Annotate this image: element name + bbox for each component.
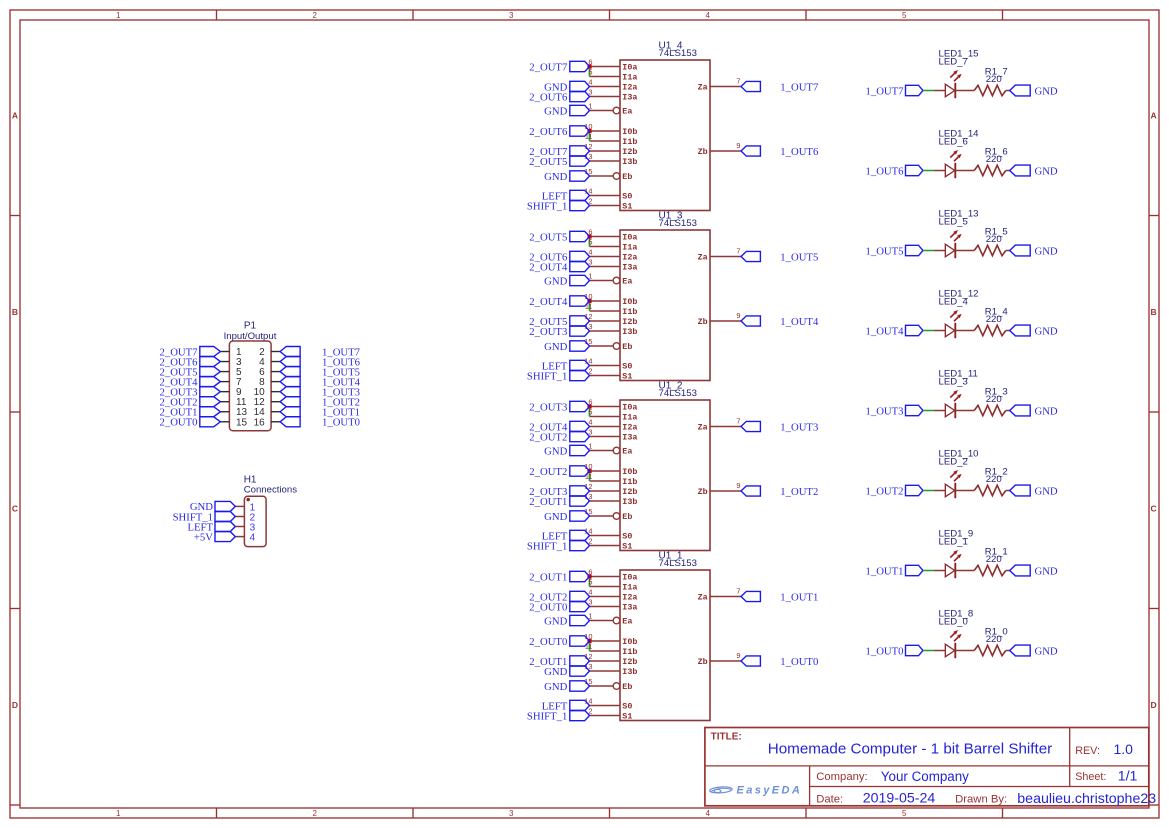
svg-text:2: 2 bbox=[313, 11, 318, 20]
svg-text:9: 9 bbox=[736, 311, 740, 320]
svg-text:Za: Za bbox=[698, 423, 708, 433]
junction at I0b bbox=[587, 639, 591, 643]
svg-text:Date:: Date: bbox=[816, 793, 843, 805]
svg-text:I2b: I2b bbox=[622, 657, 637, 667]
svg-text:2019-05-24: 2019-05-24 bbox=[863, 791, 936, 807]
wire bbox=[1006, 570, 1010, 572]
svg-text:S0: S0 bbox=[622, 362, 632, 372]
U1_2 pin numbers bbox=[584, 398, 740, 546]
LED D4 (LED1_12 / LED_4) bbox=[945, 310, 961, 338]
svg-text:15: 15 bbox=[236, 417, 248, 428]
port GND (pin 1) bbox=[544, 105, 589, 117]
resistor labels R1_5 220 bbox=[985, 226, 1008, 245]
svg-text:Eb: Eb bbox=[622, 512, 632, 522]
svg-text:1.0: 1.0 bbox=[1114, 741, 1134, 757]
H1 pin1 marker dot bbox=[247, 498, 250, 501]
ground port GND bbox=[1010, 485, 1058, 497]
U1_1 pin numbers bbox=[584, 568, 740, 716]
port 2_OUT1 (pin 12) bbox=[529, 656, 589, 668]
svg-text:2_OUT6: 2_OUT6 bbox=[529, 91, 568, 103]
ground port GND bbox=[1010, 245, 1058, 257]
resistor labels R1_0 220 bbox=[985, 626, 1008, 645]
U1_2 input pin wires bbox=[590, 407, 742, 546]
port 2_OUT2 (pin 4) bbox=[529, 591, 589, 603]
wire bbox=[955, 330, 974, 332]
U1_1 Ea enable bubble bbox=[613, 617, 620, 624]
svg-text:Sheet:: Sheet: bbox=[1075, 771, 1106, 783]
svg-text:Za: Za bbox=[698, 253, 708, 263]
svg-text:GND: GND bbox=[1035, 245, 1058, 257]
svg-text:2_OUT2: 2_OUT2 bbox=[529, 466, 567, 478]
port 1_OUT6 (P1 pin 4) bbox=[280, 356, 361, 368]
port 2_OUT3 (pin 6) bbox=[529, 401, 589, 413]
green wire bbox=[923, 330, 934, 332]
svg-text:Drawn By:: Drawn By: bbox=[955, 793, 1007, 805]
junction at I0a bbox=[587, 404, 591, 408]
svg-text:1_OUT4: 1_OUT4 bbox=[866, 325, 905, 337]
svg-text:I0b: I0b bbox=[622, 467, 637, 477]
svg-text:9: 9 bbox=[736, 481, 740, 490]
svg-text:I3a: I3a bbox=[622, 93, 637, 103]
svg-text:I1b: I1b bbox=[622, 307, 637, 317]
svg-text:LED_2: LED_2 bbox=[939, 457, 968, 468]
wire bbox=[1006, 170, 1010, 172]
wire bbox=[1006, 250, 1010, 252]
port 2_OUT4 (pin 4) bbox=[529, 421, 589, 433]
svg-text:16: 16 bbox=[254, 417, 266, 428]
port 1_OUT4 (P1 pin 8) bbox=[280, 376, 361, 388]
resistor labels R1_7 220 bbox=[985, 66, 1008, 85]
port GND (pin 4) bbox=[544, 81, 589, 93]
port 2_OUT3 (pin 12) bbox=[529, 486, 589, 498]
port 2_OUT0 (P1 pin 15) bbox=[160, 417, 221, 429]
port 2_OUT6 (P1 pin 3) bbox=[160, 356, 221, 368]
P1 reference labels bbox=[224, 320, 277, 342]
svg-text:C: C bbox=[1151, 504, 1157, 514]
svg-text:GND: GND bbox=[1035, 565, 1058, 577]
svg-text:LED_3: LED_3 bbox=[939, 377, 968, 388]
port GND (pin 15) bbox=[544, 341, 589, 353]
svg-text:220: 220 bbox=[986, 74, 1002, 85]
output port 1_OUT0 (pin 9) bbox=[741, 656, 818, 668]
svg-text:I2b: I2b bbox=[622, 147, 637, 157]
svg-text:1_OUT3: 1_OUT3 bbox=[866, 405, 904, 417]
svg-text:GND: GND bbox=[544, 666, 567, 678]
svg-text:LED_5: LED_5 bbox=[939, 217, 968, 228]
svg-text:Zb: Zb bbox=[698, 147, 708, 157]
svg-text:Your Company: Your Company bbox=[881, 769, 969, 784]
svg-text:S0: S0 bbox=[622, 702, 632, 712]
port 2_OUT7 (pin 6) bbox=[529, 61, 589, 73]
svg-text:1/1: 1/1 bbox=[1118, 769, 1138, 785]
wire bbox=[955, 250, 974, 252]
svg-text:GND: GND bbox=[1035, 325, 1058, 337]
LED labels LED1_10 LED_2 bbox=[939, 449, 979, 468]
wire bbox=[955, 90, 974, 92]
LED D7 (LED1_15 / LED_7) bbox=[945, 70, 961, 98]
svg-text:1_OUT1: 1_OUT1 bbox=[780, 591, 818, 603]
LED labels LED1_8 LED_0 bbox=[939, 609, 974, 628]
port 2_OUT7 (P1 pin 1) bbox=[160, 346, 221, 358]
svg-text:Connections: Connections bbox=[244, 485, 298, 496]
svg-text:I0a: I0a bbox=[622, 573, 637, 583]
svg-text:GND: GND bbox=[544, 171, 567, 183]
LED D2 (LED1_10 / LED_2) bbox=[945, 470, 961, 498]
port 2_OUT2 (P1 pin 11) bbox=[160, 397, 221, 409]
svg-text:5: 5 bbox=[588, 68, 592, 77]
svg-text:SHIFT_1: SHIFT_1 bbox=[527, 540, 567, 552]
wire bbox=[934, 410, 946, 412]
svg-text:S0: S0 bbox=[622, 532, 632, 542]
port 1_OUT6 bbox=[866, 165, 924, 177]
svg-text:I3a: I3a bbox=[622, 263, 637, 273]
U1_4 Eb enable bubble bbox=[613, 173, 620, 180]
port SHIFT_1 (pin 2) bbox=[527, 200, 590, 212]
port GND (pin 15) bbox=[544, 511, 589, 523]
svg-text:Ea: Ea bbox=[622, 447, 632, 457]
svg-text:2: 2 bbox=[313, 809, 318, 818]
wire bbox=[955, 170, 974, 172]
IC U1_3 reference label bbox=[659, 210, 697, 229]
svg-text:1_OUT2: 1_OUT2 bbox=[866, 485, 904, 497]
resistor labels R1_6 220 bbox=[985, 146, 1008, 165]
svg-text:GND: GND bbox=[1035, 405, 1058, 417]
svg-text:7: 7 bbox=[736, 587, 740, 596]
svg-text:Ea: Ea bbox=[622, 617, 632, 627]
EasyEDA logo bbox=[709, 785, 802, 797]
svg-text:11: 11 bbox=[585, 132, 593, 141]
port 2_OUT6 (pin 4) bbox=[529, 251, 589, 263]
port 2_OUT5 (pin 13) bbox=[529, 156, 589, 168]
svg-text:Za: Za bbox=[698, 83, 708, 93]
U1_1 Eb enable bubble bbox=[613, 683, 620, 690]
resistor R1_1 220 bbox=[974, 565, 1006, 575]
resistor labels R1_4 220 bbox=[985, 306, 1009, 325]
svg-text:2_OUT0: 2_OUT0 bbox=[160, 417, 198, 429]
IC U1_2 reference label bbox=[659, 380, 697, 399]
port 2_OUT7 (pin 12) bbox=[529, 146, 589, 158]
svg-text:I2a: I2a bbox=[622, 253, 637, 263]
svg-text:Zb: Zb bbox=[698, 657, 708, 667]
svg-text:9: 9 bbox=[736, 141, 740, 150]
resistor R1_4 220 bbox=[974, 325, 1006, 335]
svg-text:LED_1: LED_1 bbox=[939, 537, 968, 548]
svg-text:7: 7 bbox=[736, 417, 740, 426]
green wire bbox=[923, 570, 934, 572]
port 2_OUT1 (pin 6) bbox=[529, 571, 589, 583]
svg-text:Input/Output: Input/Output bbox=[224, 331, 277, 342]
svg-text:1_OUT4: 1_OUT4 bbox=[780, 316, 819, 328]
IC U1_4 74LS153 body bbox=[620, 60, 710, 212]
svg-text:5: 5 bbox=[588, 408, 592, 417]
port GND (pin 15) bbox=[544, 681, 589, 693]
port LEFT (pin 14) bbox=[542, 360, 590, 372]
port 2_OUT6 (pin 3) bbox=[529, 91, 589, 103]
port 1_OUT1 bbox=[866, 565, 924, 577]
ground port GND bbox=[1010, 165, 1058, 177]
svg-text:9: 9 bbox=[736, 651, 740, 660]
wire bbox=[934, 570, 946, 572]
U1_2 Ea enable bubble bbox=[613, 447, 620, 454]
IC U1_1 reference label bbox=[659, 550, 697, 569]
svg-text:I3b: I3b bbox=[622, 497, 637, 507]
svg-text:I0a: I0a bbox=[622, 233, 637, 243]
green wire I0b-I1b strap bbox=[589, 473, 591, 482]
svg-text:1_OUT0: 1_OUT0 bbox=[780, 656, 818, 668]
svg-text:GND: GND bbox=[544, 445, 567, 457]
port 1_OUT0 bbox=[866, 645, 924, 657]
LED labels LED1_9 LED_1 bbox=[939, 529, 974, 548]
IC U1_4 reference label bbox=[659, 40, 697, 59]
svg-text:Eb: Eb bbox=[622, 172, 632, 182]
junction at I0b bbox=[587, 299, 591, 303]
svg-text:I0a: I0a bbox=[622, 63, 637, 73]
port 1_OUT4 bbox=[866, 325, 924, 337]
svg-text:2_OUT5: 2_OUT5 bbox=[529, 231, 567, 243]
svg-text:I1b: I1b bbox=[622, 647, 637, 657]
svg-text:2_OUT0: 2_OUT0 bbox=[529, 601, 567, 613]
junction at I0b bbox=[587, 469, 591, 473]
svg-text:1_OUT1: 1_OUT1 bbox=[866, 565, 904, 577]
LED labels LED1_14 LED_6 bbox=[939, 129, 980, 148]
svg-text:Zb: Zb bbox=[698, 487, 708, 497]
svg-text:220: 220 bbox=[986, 154, 1002, 165]
port 2_OUT1 (pin 13) bbox=[529, 496, 589, 508]
title block texts bbox=[711, 732, 1157, 808]
port 1_OUT5 (P1 pin 6) bbox=[280, 366, 360, 378]
port LEFT (pin 14) bbox=[542, 700, 590, 712]
port 2_OUT1 (P1 pin 13) bbox=[160, 407, 221, 419]
green wire bbox=[923, 170, 934, 172]
svg-text:1: 1 bbox=[116, 809, 121, 818]
port 2_OUT4 (pin 10) bbox=[529, 296, 589, 308]
port GND (pin 15) bbox=[544, 171, 589, 183]
wire bbox=[955, 570, 974, 572]
port 2_OUT4 (P1 pin 7) bbox=[160, 376, 221, 388]
svg-text:GND: GND bbox=[544, 275, 567, 287]
port 1_OUT3 (P1 pin 10) bbox=[280, 386, 360, 398]
svg-text:LED_4: LED_4 bbox=[939, 297, 969, 308]
svg-text:2_OUT1: 2_OUT1 bbox=[529, 496, 567, 508]
svg-text:2_OUT0: 2_OUT0 bbox=[529, 636, 567, 648]
port 2_OUT6 (pin 10) bbox=[529, 126, 589, 138]
svg-text:GND: GND bbox=[1035, 85, 1058, 97]
svg-text:B: B bbox=[12, 307, 18, 317]
svg-text:GND: GND bbox=[1035, 645, 1058, 657]
port +5V (H1 pin 4) bbox=[194, 531, 235, 543]
svg-text:D: D bbox=[1151, 700, 1157, 710]
svg-text:LED_7: LED_7 bbox=[939, 57, 968, 68]
U1_3 pin numbers bbox=[584, 228, 740, 376]
junction at I0a bbox=[587, 64, 591, 68]
svg-text:1_OUT7: 1_OUT7 bbox=[866, 85, 905, 97]
output port 1_OUT6 (pin 9) bbox=[741, 146, 819, 158]
resistor labels R1_1 220 bbox=[985, 546, 1008, 565]
resistor R1_2 220 bbox=[974, 485, 1006, 495]
wire bbox=[1006, 410, 1010, 412]
resistor labels R1_2 220 bbox=[985, 466, 1008, 485]
svg-text:1_OUT0: 1_OUT0 bbox=[322, 417, 360, 429]
svg-text:I1a: I1a bbox=[622, 413, 637, 423]
green wire I0a-I1a strap bbox=[589, 68, 591, 77]
ground port GND bbox=[1010, 405, 1058, 417]
port 2_OUT0 (pin 3) bbox=[529, 601, 589, 613]
port SHIFT_1 (pin 2) bbox=[527, 370, 590, 382]
svg-text:SHIFT_1: SHIFT_1 bbox=[527, 200, 567, 212]
U1_3 input pin wires bbox=[590, 237, 742, 376]
wire bbox=[934, 330, 946, 332]
port GND (H1 pin 1) bbox=[190, 501, 235, 513]
svg-text:I3b: I3b bbox=[622, 157, 637, 167]
green wire I0a-I1a strap bbox=[589, 238, 591, 247]
svg-text:TITLE:: TITLE: bbox=[711, 732, 742, 743]
output port 1_OUT7 (pin 7) bbox=[741, 81, 819, 93]
svg-text:1: 1 bbox=[116, 11, 121, 20]
svg-text:I1a: I1a bbox=[622, 243, 637, 253]
svg-text:7: 7 bbox=[736, 247, 740, 256]
svg-text:2_OUT3: 2_OUT3 bbox=[529, 326, 567, 338]
svg-text:GND: GND bbox=[544, 511, 567, 523]
LED labels LED1_13 LED_5 bbox=[939, 209, 979, 228]
svg-text:1_OUT2: 1_OUT2 bbox=[780, 486, 818, 498]
LED labels LED1_11 LED_3 bbox=[939, 369, 978, 388]
LED D6 (LED1_14 / LED_6) bbox=[945, 150, 961, 178]
svg-text:3: 3 bbox=[509, 809, 514, 818]
port 1_OUT7 bbox=[866, 85, 924, 97]
wire bbox=[955, 410, 974, 412]
green wire bbox=[923, 90, 934, 92]
svg-text:220: 220 bbox=[986, 634, 1002, 645]
output port 1_OUT3 (pin 7) bbox=[741, 421, 818, 433]
resistor R1_3 220 bbox=[974, 405, 1006, 415]
port 1_OUT5 bbox=[866, 245, 924, 257]
svg-text:I1a: I1a bbox=[622, 583, 637, 593]
svg-text:I0b: I0b bbox=[622, 297, 637, 307]
U1_4 input pin wires bbox=[590, 67, 742, 206]
svg-text:I2a: I2a bbox=[622, 593, 637, 603]
svg-text:220: 220 bbox=[986, 394, 1002, 405]
wire bbox=[934, 90, 946, 92]
svg-text:1_OUT7: 1_OUT7 bbox=[780, 81, 819, 93]
resistor R1_6 220 bbox=[974, 165, 1006, 175]
svg-text:S1: S1 bbox=[622, 372, 632, 382]
resistor R1_0 220 bbox=[974, 645, 1006, 655]
port 2_OUT3 (pin 13) bbox=[529, 326, 589, 338]
IC U1_3 74LS153 body bbox=[620, 230, 710, 382]
connector P1 Input/Output body bbox=[229, 341, 271, 431]
svg-text:I3b: I3b bbox=[622, 667, 637, 677]
port 1_OUT0 (P1 pin 16) bbox=[280, 417, 360, 429]
svg-text:1_OUT6: 1_OUT6 bbox=[866, 165, 905, 177]
wire bbox=[934, 490, 946, 492]
LED D5 (LED1_13 / LED_5) bbox=[945, 230, 961, 258]
port LEFT (pin 14) bbox=[542, 530, 590, 542]
svg-text:4: 4 bbox=[706, 809, 711, 818]
H1 pin wires bbox=[235, 506, 244, 536]
green wire bbox=[923, 650, 934, 652]
svg-text:I1b: I1b bbox=[622, 477, 637, 487]
port 1_OUT2 (P1 pin 12) bbox=[280, 397, 360, 409]
svg-text:I0b: I0b bbox=[622, 637, 637, 647]
svg-text:220: 220 bbox=[986, 234, 1002, 245]
ground port GND bbox=[1010, 325, 1058, 337]
green wire I0a-I1a strap bbox=[589, 578, 591, 587]
green wire bbox=[923, 410, 934, 412]
svg-text:S1: S1 bbox=[622, 712, 632, 722]
svg-text:I2b: I2b bbox=[622, 317, 637, 327]
svg-text:Homemade Computer - 1 bit Barr: Homemade Computer - 1 bit Barrel Shifter bbox=[768, 741, 1052, 758]
P1 pin wires bbox=[220, 352, 280, 422]
IC U1_1 74LS153 body bbox=[620, 570, 710, 722]
wire bbox=[1006, 650, 1010, 652]
green wire bbox=[923, 490, 934, 492]
svg-text:1_OUT0: 1_OUT0 bbox=[866, 645, 904, 657]
svg-text:I1a: I1a bbox=[622, 73, 637, 83]
svg-text:S1: S1 bbox=[622, 202, 632, 212]
svg-text:LED_6: LED_6 bbox=[939, 137, 968, 148]
svg-text:220: 220 bbox=[986, 314, 1002, 325]
svg-text:1_OUT5: 1_OUT5 bbox=[780, 251, 818, 263]
green wire bbox=[923, 250, 934, 252]
svg-text:I0a: I0a bbox=[622, 403, 637, 413]
svg-text:REV:: REV: bbox=[1075, 745, 1100, 757]
svg-text:2_OUT7: 2_OUT7 bbox=[529, 61, 568, 73]
svg-text:Company:: Company: bbox=[816, 771, 868, 783]
port 1_OUT1 (P1 pin 14) bbox=[280, 407, 360, 419]
H1 pin numbers bbox=[250, 502, 256, 543]
svg-text:Eb: Eb bbox=[622, 682, 632, 692]
svg-text:Ea: Ea bbox=[622, 277, 632, 287]
LED labels LED1_15 LED_7 bbox=[939, 49, 979, 68]
wire bbox=[1006, 330, 1010, 332]
U1_4 Ea enable bubble bbox=[613, 107, 620, 114]
port GND (pin 1) bbox=[544, 275, 589, 287]
U1_3 Eb enable bubble bbox=[613, 343, 620, 350]
svg-text:2_OUT2: 2_OUT2 bbox=[529, 431, 567, 443]
svg-text:C: C bbox=[12, 504, 18, 514]
svg-text:I2b: I2b bbox=[622, 487, 637, 497]
port SHIFT_1 (pin 2) bbox=[527, 540, 590, 552]
svg-text:GND: GND bbox=[544, 681, 567, 693]
wire bbox=[934, 250, 946, 252]
junction at I0a bbox=[587, 234, 591, 238]
junction at I0b bbox=[587, 129, 591, 133]
port 2_OUT2 (pin 3) bbox=[529, 431, 589, 443]
svg-text:Zb: Zb bbox=[698, 317, 708, 327]
svg-text:74LS153: 74LS153 bbox=[659, 388, 697, 399]
port 2_OUT0 (pin 10) bbox=[529, 636, 589, 648]
svg-text:2_OUT4: 2_OUT4 bbox=[529, 296, 568, 308]
svg-text:I0b: I0b bbox=[622, 127, 637, 137]
green wire I0b-I1b strap bbox=[589, 133, 591, 142]
svg-text:LED_0: LED_0 bbox=[939, 617, 968, 628]
svg-text:S0: S0 bbox=[622, 192, 632, 202]
svg-text:11: 11 bbox=[585, 472, 593, 481]
wire bbox=[955, 650, 974, 652]
svg-text:EasyEDA: EasyEDA bbox=[737, 785, 803, 797]
H1 reference labels bbox=[244, 474, 298, 495]
svg-text:2_OUT3: 2_OUT3 bbox=[529, 401, 567, 413]
port SHIFT_1 (H1 pin 2) bbox=[173, 511, 236, 523]
port GND (pin 13) bbox=[544, 666, 589, 678]
ground port GND bbox=[1010, 85, 1058, 97]
svg-text:I2a: I2a bbox=[622, 83, 637, 93]
IC U1_2 74LS153 body bbox=[620, 400, 710, 552]
LED labels LED1_12 LED_4 bbox=[939, 289, 979, 308]
svg-text:A: A bbox=[1151, 111, 1157, 121]
svg-text:3: 3 bbox=[509, 11, 514, 20]
svg-text:2_OUT5: 2_OUT5 bbox=[529, 156, 567, 168]
